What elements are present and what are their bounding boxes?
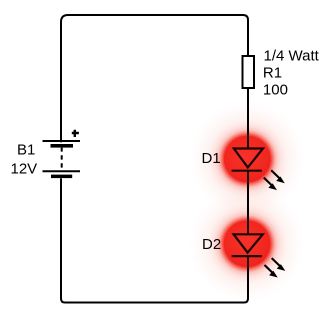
svg-text:B1: B1 xyxy=(17,141,35,158)
LED D1 internal wire xyxy=(247,136,249,183)
LED D1 glow xyxy=(189,101,305,217)
battery B1 plate1 thick xyxy=(51,144,74,148)
LED D1 arrow 1 xyxy=(271,170,285,183)
svg-text:1/4 Watt: 1/4 Watt xyxy=(264,47,320,64)
LED D2 diode symbol xyxy=(234,234,263,252)
svg-text:100: 100 xyxy=(263,82,288,99)
svg-text:D1: D1 xyxy=(202,150,221,167)
resistor R1 xyxy=(243,56,255,88)
LED D1 arrow 2 xyxy=(264,178,277,191)
LED D1 diode symbol xyxy=(234,149,263,168)
battery B1 plate1 long xyxy=(43,140,81,142)
LED D2 arrow 1 xyxy=(272,258,286,271)
battery plus sign xyxy=(72,130,79,137)
LED D2 glow xyxy=(189,186,305,302)
LED D2 body xyxy=(224,220,271,267)
battery B1 plate2 long xyxy=(43,170,81,172)
svg-text:R1: R1 xyxy=(263,65,282,82)
svg-text:D2: D2 xyxy=(202,236,221,253)
wire circuit loop xyxy=(61,15,248,303)
battery B1 plate2 thick xyxy=(51,175,72,179)
battery dashed link xyxy=(61,148,63,168)
LED D1 body xyxy=(224,136,271,183)
LED D2 arrow 2 xyxy=(265,265,278,278)
battery gap eraser xyxy=(56,142,66,178)
LED D2 internal wire xyxy=(247,221,249,268)
svg-text:12V: 12V xyxy=(11,161,38,178)
